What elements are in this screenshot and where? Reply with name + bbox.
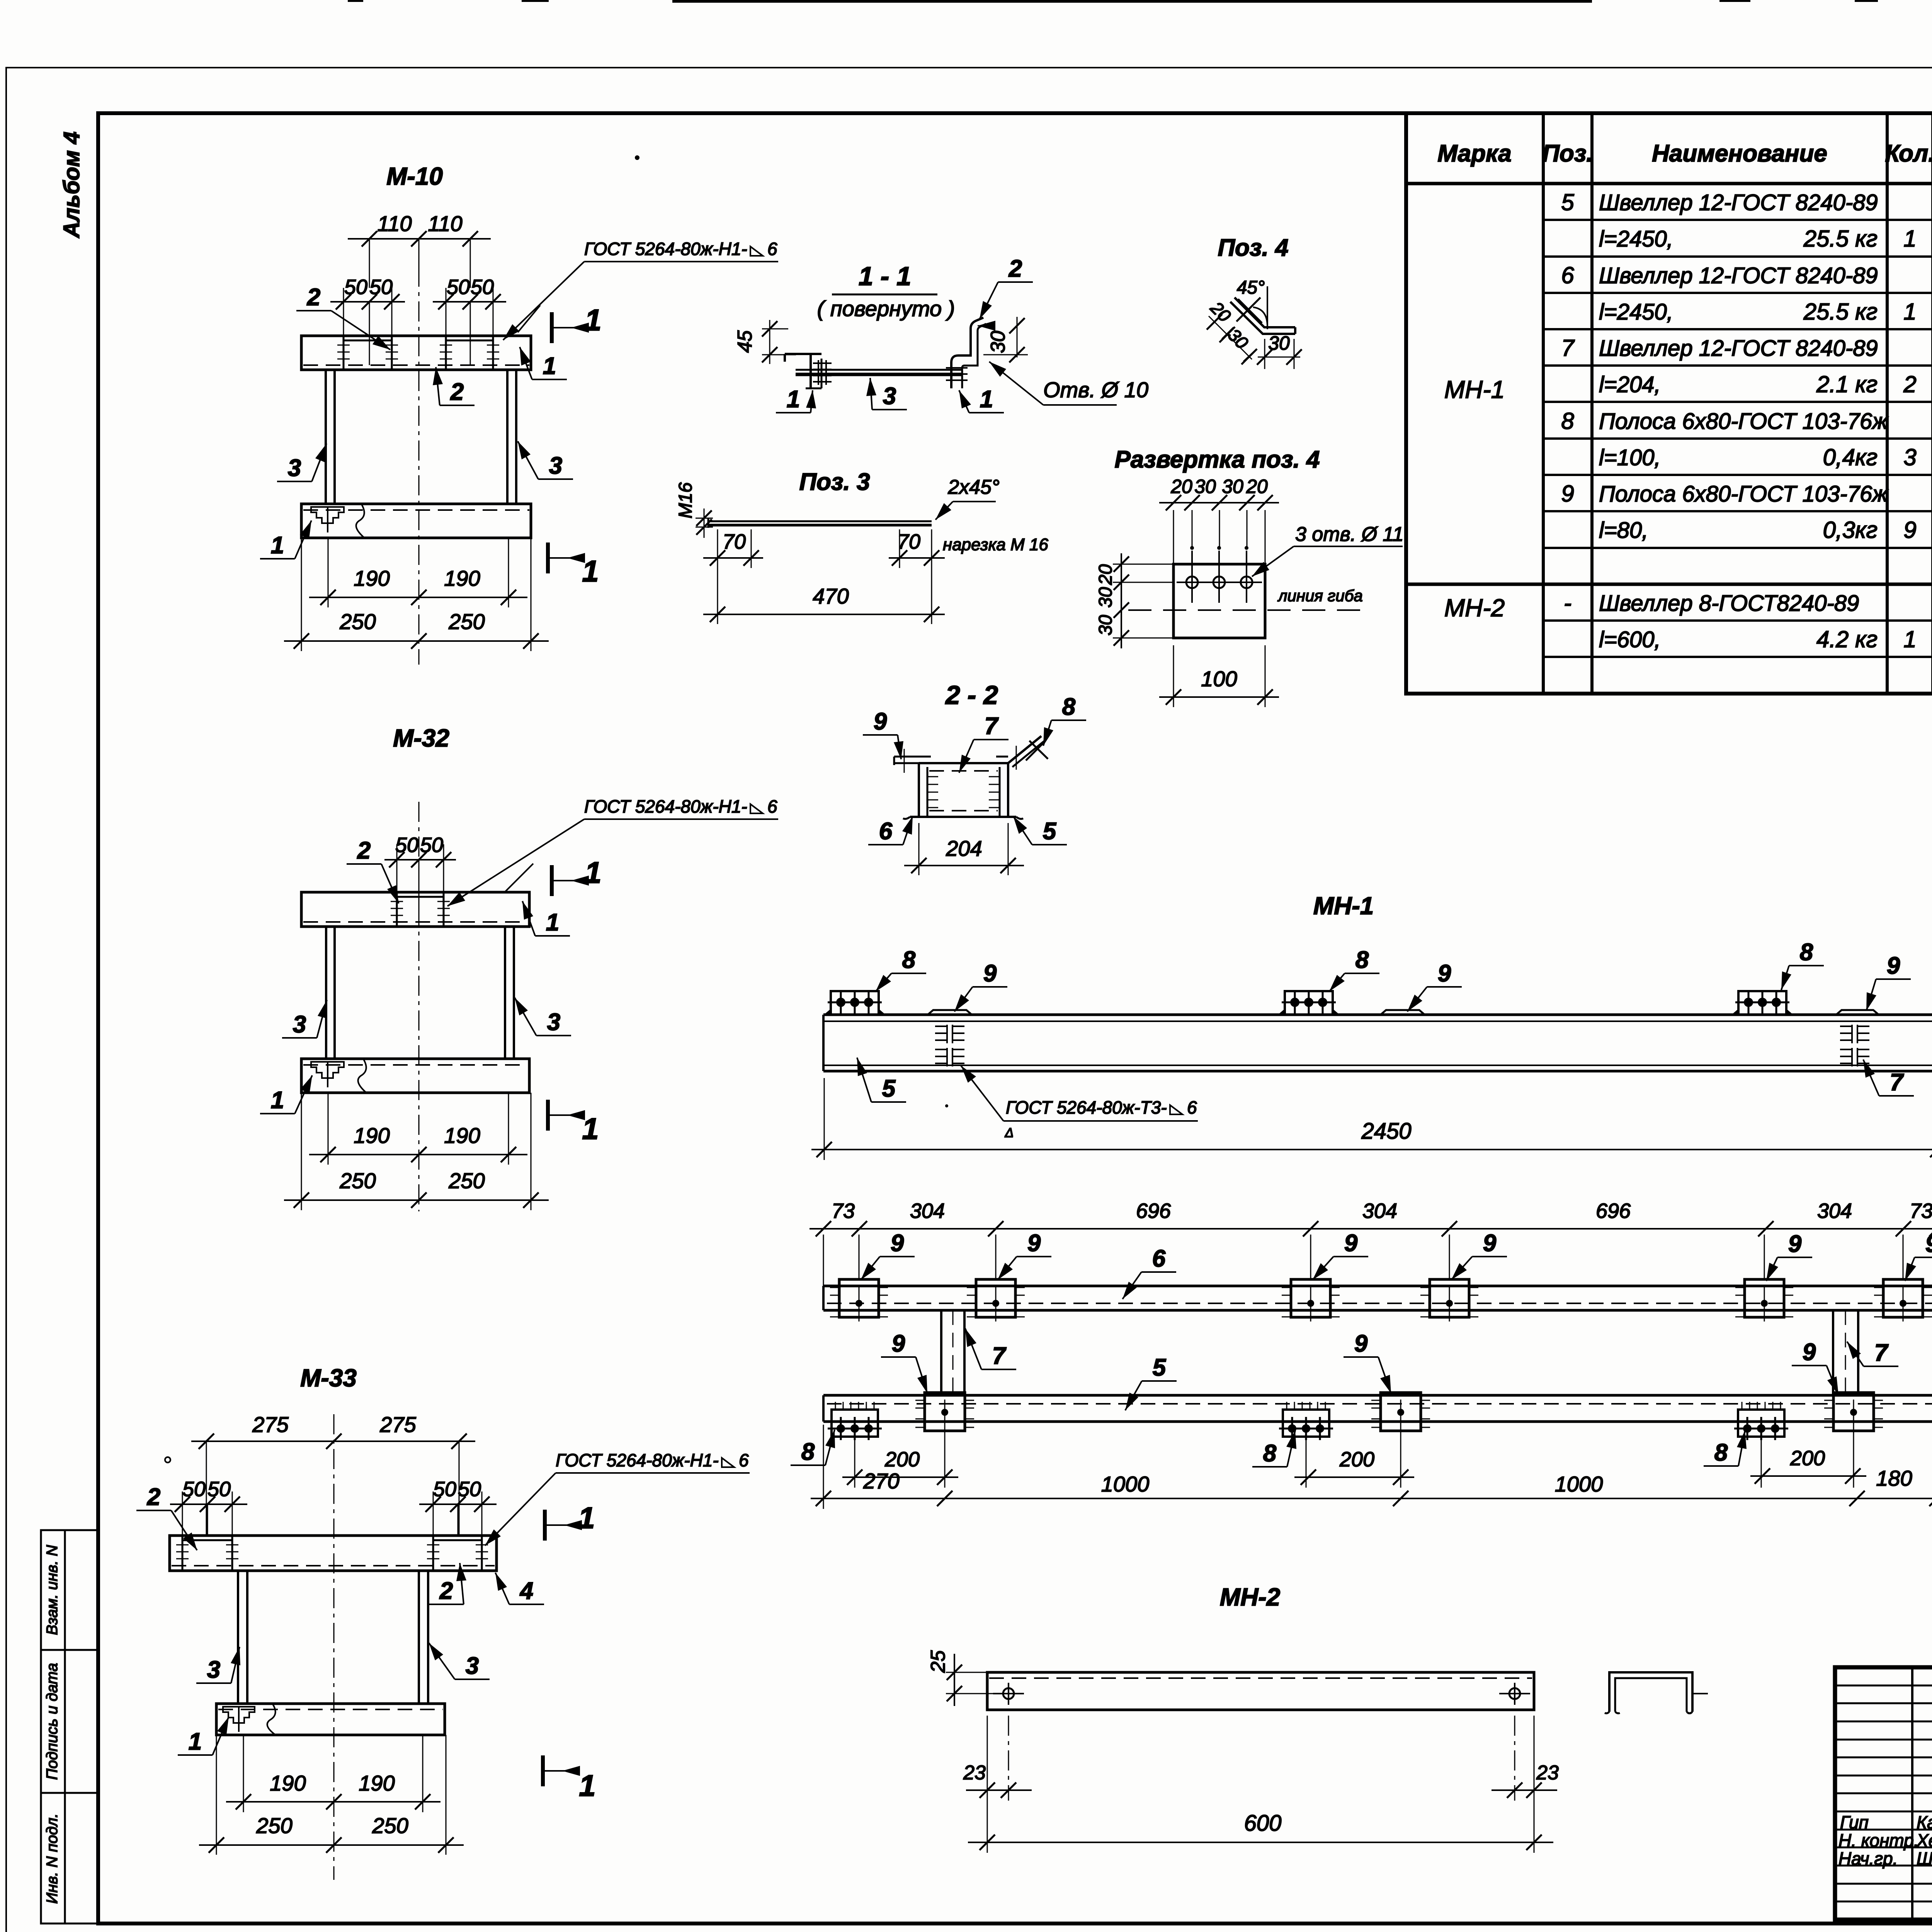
- svg-text:2.1 кг: 2.1 кг: [1816, 371, 1878, 397]
- svg-text:30: 30: [1194, 476, 1216, 497]
- svg-text:5: 5: [1153, 1354, 1167, 1381]
- svg-text:Полоса 6х80-ГОСТ 103-76ж: Полоса 6х80-ГОСТ 103-76ж: [1599, 409, 1888, 434]
- svg-text:304: 304: [910, 1199, 945, 1223]
- svg-text:8: 8: [1263, 1440, 1277, 1467]
- svg-text:1 - 1: 1 - 1: [859, 262, 911, 291]
- svg-text:3: 3: [293, 1011, 306, 1038]
- svg-text:5: 5: [882, 1075, 896, 1102]
- svg-text:270: 270: [863, 1469, 899, 1493]
- svg-text:1: 1: [585, 303, 601, 337]
- svg-text:7: 7: [985, 713, 999, 740]
- svg-text:9: 9: [1925, 1231, 1932, 1257]
- svg-text:0,4кг: 0,4кг: [1823, 444, 1878, 470]
- svg-text:2 - 2: 2 - 2: [945, 680, 998, 710]
- svg-text:Взам. инв. N: Взам. инв. N: [44, 1545, 61, 1635]
- svg-text:l=100,: l=100,: [1599, 445, 1661, 470]
- svg-text:50: 50: [447, 276, 470, 299]
- svg-text:ГОСТ 5264-80ж-Н1-: ГОСТ 5264-80ж-Н1-: [584, 796, 747, 816]
- svg-text:190: 190: [444, 566, 480, 590]
- svg-text:20: 20: [1170, 476, 1192, 497]
- svg-text:l=2450,: l=2450,: [1599, 299, 1673, 325]
- svg-text:1: 1: [1903, 299, 1916, 325]
- svg-text:9: 9: [1354, 1330, 1368, 1357]
- svg-text:50: 50: [182, 1478, 206, 1501]
- svg-text:Швеллер 12-ГОСТ 8240-89: Швеллер 12-ГОСТ 8240-89: [1599, 263, 1878, 288]
- svg-text:9: 9: [1887, 952, 1900, 979]
- svg-text:Δ: Δ: [1005, 1126, 1014, 1140]
- svg-text:250: 250: [339, 609, 376, 634]
- svg-text:190: 190: [354, 566, 389, 590]
- svg-text:70: 70: [723, 530, 746, 553]
- svg-text:696: 696: [1136, 1199, 1171, 1223]
- svg-text:100: 100: [1201, 667, 1237, 691]
- svg-text:2450: 2450: [1361, 1119, 1411, 1144]
- svg-text:Н. контр.: Н. контр.: [1838, 1830, 1919, 1850]
- svg-text:М16: М16: [675, 482, 696, 519]
- svg-text:20: 20: [1246, 476, 1268, 497]
- svg-text:линия гиба: линия гиба: [1277, 587, 1363, 605]
- svg-text:200: 200: [884, 1448, 920, 1471]
- svg-text:30: 30: [987, 331, 1009, 353]
- svg-text:190: 190: [359, 1771, 395, 1795]
- svg-text:6: 6: [1187, 1097, 1197, 1117]
- svg-text:2: 2: [1009, 255, 1022, 282]
- svg-text:8: 8: [1800, 939, 1813, 966]
- svg-text:8: 8: [1714, 1439, 1728, 1466]
- svg-text:МН-2: МН-2: [1220, 1583, 1280, 1611]
- svg-text:Наименование: Наименование: [1652, 140, 1827, 167]
- svg-text:Кол.: Кол.: [1885, 140, 1932, 167]
- svg-text:3 отв. Ø 11: 3 отв. Ø 11: [1295, 523, 1404, 546]
- svg-text:200: 200: [1790, 1447, 1825, 1470]
- svg-text:9: 9: [1438, 960, 1451, 987]
- svg-text:190: 190: [354, 1123, 389, 1148]
- svg-text:50: 50: [471, 276, 494, 299]
- svg-text:2: 2: [147, 1484, 160, 1510]
- svg-text:200: 200: [1339, 1448, 1374, 1471]
- svg-text:30: 30: [1095, 615, 1116, 636]
- svg-text:304: 304: [1817, 1199, 1852, 1223]
- svg-text:ГОСТ 5264-80ж-Н1-: ГОСТ 5264-80ж-Н1-: [556, 1450, 719, 1470]
- svg-text:М-10: М-10: [386, 162, 443, 190]
- svg-text:250: 250: [448, 609, 485, 634]
- svg-text:25: 25: [927, 1650, 949, 1673]
- svg-text:3: 3: [288, 455, 301, 481]
- svg-text:1: 1: [1903, 626, 1916, 652]
- svg-text:ГОСТ 5264-80ж-Н1-: ГОСТ 5264-80ж-Н1-: [584, 239, 747, 259]
- svg-text:6: 6: [1561, 262, 1574, 288]
- svg-text:250: 250: [372, 1813, 408, 1838]
- svg-text:6: 6: [1152, 1245, 1166, 1272]
- svg-text:9: 9: [1483, 1230, 1497, 1257]
- svg-text:1: 1: [546, 909, 559, 936]
- svg-text:250: 250: [448, 1168, 485, 1193]
- svg-text:275: 275: [379, 1412, 416, 1437]
- svg-text:190: 190: [270, 1771, 306, 1795]
- svg-text:2: 2: [307, 284, 320, 311]
- svg-text:45: 45: [734, 330, 756, 353]
- svg-text:9: 9: [983, 960, 997, 987]
- svg-text:Поз. 4: Поз. 4: [1218, 235, 1288, 261]
- svg-text:Развертка поз. 4: Развертка поз. 4: [1114, 446, 1320, 473]
- svg-text:73: 73: [832, 1199, 855, 1223]
- svg-text:Альбом 4: Альбом 4: [59, 131, 84, 238]
- svg-text:9: 9: [1344, 1230, 1358, 1257]
- svg-text:250: 250: [339, 1168, 376, 1193]
- svg-text:М-32: М-32: [393, 724, 449, 752]
- svg-text:2: 2: [1903, 371, 1916, 397]
- svg-text:9: 9: [874, 708, 887, 735]
- svg-text:9: 9: [1561, 481, 1574, 507]
- svg-text:50: 50: [433, 1478, 456, 1501]
- svg-text:9: 9: [1903, 517, 1916, 543]
- svg-text:7: 7: [1874, 1340, 1889, 1366]
- svg-text:2: 2: [439, 1578, 453, 1604]
- svg-text:Швеллер 12-ГОСТ 8240-89: Швеллер 12-ГОСТ 8240-89: [1599, 190, 1878, 215]
- svg-text:190: 190: [444, 1123, 480, 1148]
- svg-text:1: 1: [980, 386, 993, 413]
- svg-text:Хействер: Хействер: [1916, 1830, 1932, 1850]
- svg-text:1: 1: [271, 532, 284, 559]
- svg-text:600: 600: [1244, 1811, 1282, 1836]
- svg-text:Поз.: Поз.: [1542, 140, 1593, 167]
- svg-text:l=600,: l=600,: [1599, 627, 1661, 652]
- svg-text:М-33: М-33: [300, 1364, 357, 1392]
- svg-text:7: 7: [1561, 335, 1575, 361]
- svg-text:5: 5: [1043, 818, 1057, 845]
- svg-text:30: 30: [1095, 587, 1116, 608]
- svg-text:6: 6: [879, 818, 893, 845]
- svg-text:МН-2: МН-2: [1444, 594, 1505, 622]
- svg-text:Нач.гр.: Нач.гр.: [1838, 1849, 1898, 1869]
- svg-text:7: 7: [1890, 1069, 1904, 1096]
- svg-text:25.5 кг: 25.5 кг: [1803, 226, 1878, 252]
- svg-text:204: 204: [946, 836, 982, 861]
- svg-text:3: 3: [547, 1009, 560, 1036]
- svg-text:1: 1: [787, 386, 800, 413]
- svg-text:3: 3: [466, 1653, 479, 1679]
- svg-text:1000: 1000: [1101, 1472, 1150, 1496]
- svg-text:2х45°: 2х45°: [947, 476, 1000, 498]
- svg-text:50: 50: [207, 1478, 231, 1501]
- svg-text:30: 30: [1222, 476, 1243, 497]
- svg-text:1: 1: [271, 1087, 284, 1114]
- svg-text:275: 275: [252, 1412, 289, 1437]
- svg-text:Гип: Гип: [1840, 1812, 1869, 1832]
- svg-text:Швеллер 12-ГОСТ 8240-89: Швеллер 12-ГОСТ 8240-89: [1599, 336, 1878, 361]
- svg-text:8: 8: [1355, 947, 1369, 973]
- svg-text:470: 470: [813, 584, 849, 608]
- svg-text:Калугина: Калугина: [1917, 1812, 1932, 1832]
- svg-text:304: 304: [1362, 1199, 1397, 1223]
- svg-text:1: 1: [189, 1728, 202, 1755]
- svg-text:45°: 45°: [1237, 277, 1265, 298]
- svg-text:1: 1: [582, 1112, 599, 1146]
- svg-text:1000: 1000: [1555, 1472, 1603, 1496]
- svg-text:l=80,: l=80,: [1599, 518, 1648, 543]
- svg-text:50: 50: [420, 833, 443, 857]
- svg-text:Отв. Ø 10: Отв. Ø 10: [1043, 378, 1148, 402]
- svg-text:1: 1: [543, 353, 556, 379]
- svg-text:23: 23: [963, 1762, 986, 1784]
- svg-text:6: 6: [767, 239, 777, 259]
- svg-text:Инв. N подл.: Инв. N подл.: [44, 1813, 61, 1904]
- svg-text:250: 250: [256, 1813, 292, 1838]
- svg-text:9: 9: [1788, 1231, 1802, 1257]
- svg-text:6: 6: [767, 796, 777, 816]
- svg-text:Полоса 6х80-ГОСТ 103-76ж: Полоса 6х80-ГОСТ 103-76ж: [1599, 481, 1888, 507]
- svg-text:70: 70: [897, 530, 920, 553]
- svg-text:МН-1: МН-1: [1313, 892, 1374, 920]
- svg-text:23: 23: [1536, 1762, 1559, 1784]
- svg-text:9: 9: [891, 1230, 904, 1257]
- svg-text:8: 8: [1062, 694, 1076, 720]
- svg-text:180: 180: [1876, 1466, 1912, 1490]
- svg-text:l=204,: l=204,: [1599, 372, 1661, 397]
- svg-text:( повернуто ): ( повернуто ): [817, 296, 955, 321]
- svg-text:Швеллер 8-ГОСТ8240-89: Швеллер 8-ГОСТ8240-89: [1599, 591, 1859, 616]
- svg-text:73: 73: [1910, 1199, 1932, 1223]
- svg-text:4.2 кг: 4.2 кг: [1816, 626, 1878, 652]
- svg-text:Марка: Марка: [1437, 140, 1511, 167]
- svg-text:ГОСТ 5264-80ж-Т3-: ГОСТ 5264-80ж-Т3-: [1006, 1097, 1167, 1117]
- svg-text:1: 1: [578, 1501, 595, 1535]
- svg-text:-: -: [1564, 590, 1571, 616]
- svg-text:8: 8: [902, 947, 916, 973]
- svg-text:50: 50: [344, 276, 367, 299]
- svg-text:4: 4: [519, 1578, 533, 1604]
- svg-text:7: 7: [992, 1343, 1007, 1369]
- svg-text:1: 1: [582, 554, 599, 588]
- svg-text:2: 2: [357, 837, 371, 864]
- svg-text:3: 3: [549, 452, 562, 479]
- svg-text:8: 8: [1561, 408, 1574, 434]
- svg-text:Подпись и дата: Подпись и дата: [44, 1663, 61, 1780]
- svg-text:9: 9: [892, 1330, 905, 1357]
- svg-text:1: 1: [579, 1769, 595, 1803]
- svg-text:Поз. 3: Поз. 3: [799, 469, 870, 495]
- svg-text:2: 2: [450, 379, 464, 405]
- svg-text:50: 50: [458, 1478, 481, 1501]
- svg-text:МН-1: МН-1: [1444, 376, 1505, 403]
- svg-text:110: 110: [377, 211, 412, 236]
- svg-text:9: 9: [1803, 1339, 1816, 1366]
- svg-text:5: 5: [1561, 189, 1574, 215]
- svg-text:25.5 кг: 25.5 кг: [1803, 299, 1878, 325]
- svg-text:3: 3: [1903, 444, 1916, 470]
- svg-text:9: 9: [1027, 1230, 1041, 1257]
- svg-text:Шленова: Шленова: [1917, 1849, 1932, 1869]
- svg-text:696: 696: [1596, 1199, 1631, 1223]
- svg-text:l=2450,: l=2450,: [1599, 226, 1673, 252]
- svg-text:8: 8: [801, 1439, 815, 1465]
- svg-text:1: 1: [585, 855, 601, 889]
- svg-text:50: 50: [395, 833, 418, 857]
- svg-text:50: 50: [369, 276, 393, 299]
- svg-text:1: 1: [1903, 226, 1916, 252]
- svg-text:6: 6: [739, 1450, 749, 1470]
- svg-text:3: 3: [883, 383, 896, 410]
- svg-text:3: 3: [207, 1656, 220, 1683]
- svg-text:0,3кг: 0,3кг: [1823, 517, 1878, 543]
- svg-text:нарезка М 16: нарезка М 16: [943, 535, 1048, 554]
- svg-text:110: 110: [428, 211, 462, 236]
